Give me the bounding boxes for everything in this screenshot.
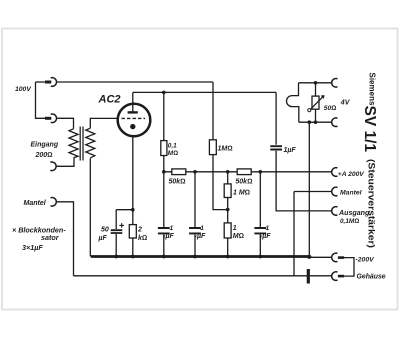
node bus c1 (114, 255, 118, 259)
svg-text:0,1MΩ: 0,1MΩ (340, 218, 359, 225)
svg-text:Gehäuse: Gehäuse (357, 273, 386, 280)
wire 100V corner to plug (36, 81, 45, 83)
svg-text:50kΩ: 50kΩ (169, 178, 186, 185)
jack Ausgang socket arc (332, 207, 338, 216)
capacitor C2 1uF plates (158, 228, 170, 233)
wire cathode down (132, 136, 134, 225)
jack 100V socket arc (51, 78, 57, 87)
jack Mantel left socket arc (51, 198, 57, 207)
svg-text:1µF: 1µF (284, 147, 297, 154)
svg-text:MΩ: MΩ (233, 233, 244, 240)
svg-text:×µF: ×µF (194, 233, 206, 240)
chassis bar (307, 269, 310, 284)
wire grid from transformer to tube (90, 118, 118, 128)
node rail c2 (193, 170, 197, 174)
resistor R1 0,1 Mohm box (161, 141, 167, 156)
jack +A 200V socket arc (332, 168, 338, 177)
svg-text:3×1µF: 3×1µF (22, 243, 43, 252)
svg-text:50Ω: 50Ω (324, 105, 336, 112)
svg-text:(Steuerverstärker): (Steuerverstärker) (366, 159, 376, 248)
svg-text:Mantel: Mantel (24, 200, 47, 207)
wire 1Mohm3 leads (227, 172, 229, 184)
svg-text:SV 1/1: SV 1/1 (361, 106, 378, 153)
jack Gehaeuse socket arc (332, 272, 338, 281)
node heater top (314, 81, 318, 85)
svg-text:MΩ: MΩ (168, 150, 178, 157)
svg-text:Siemens: Siemens (368, 73, 377, 106)
node bus r6 (226, 255, 230, 259)
svg-text:4V: 4V (340, 100, 351, 107)
wire C5 to Ausgang jack (276, 151, 332, 211)
svg-text:µF: µF (98, 235, 108, 242)
wire rheostat bottom lead (315, 109, 317, 122)
wire cap1 leads (163, 172, 165, 227)
svg-text:×µF: ×µF (260, 233, 272, 240)
resistor R5 1 Mohm box (224, 184, 231, 198)
wire cathode to 50uF cap (116, 209, 133, 211)
wire Eingang top to transformer (56, 118, 73, 129)
wire Mantel right vertical (293, 192, 295, 276)
wire Eingang bottom to transformer (56, 158, 74, 167)
node heater bottom pot (314, 120, 318, 124)
wire rheostat leads (315, 83, 317, 96)
jack Mantel right socket arc (332, 187, 338, 196)
wire cap2 bottom lead (194, 234, 196, 256)
node cathode junction (131, 208, 135, 212)
wire 1Mohm4 bottom lead (227, 238, 229, 257)
wire cap1 bottom lead (163, 234, 165, 256)
wire -200V jack (310, 256, 332, 258)
node rail left (162, 170, 166, 174)
wire heater down to bus (308, 122, 310, 256)
wire 100V-Eingang link vertical (36, 82, 46, 118)
capacitor C1 plus sign (119, 223, 124, 228)
resistor R2 1 Mohm box (209, 140, 216, 155)
capacitor C3 1uF plates (189, 228, 201, 233)
svg-text:200Ω: 200Ω (35, 152, 53, 159)
wire anode horizontal (133, 91, 276, 93)
wire R1 bottom lead (163, 156, 165, 172)
node anode/R1 (162, 91, 166, 95)
jack Eingang bottom socket arc (50, 162, 56, 171)
node 1M junction (226, 208, 230, 212)
rheostat R8 50 ohm box (312, 96, 319, 109)
node bus right end (307, 255, 311, 259)
svg-text:+A 200V: +A 200V (338, 171, 365, 178)
svg-text:×µF: ×µF (163, 233, 175, 240)
heater filament bracket (287, 83, 299, 122)
svg-text:Eingang: Eingang (31, 142, 59, 149)
rheostat wiper circle (308, 109, 311, 112)
jack 100V plug (45, 81, 52, 84)
wire R5 to R6 link (227, 198, 229, 223)
jack -200V plug (338, 256, 344, 259)
ground bus thick (91, 255, 310, 258)
wire bottom thin shield line (74, 275, 332, 277)
wire -200V to Gehaeuse link (344, 258, 354, 277)
tube U1 AC2 envelope (118, 104, 151, 137)
capacitor C4 1uF plates (254, 228, 266, 233)
rheostat arrow (310, 96, 324, 110)
node heater bottom down (308, 120, 312, 124)
svg-text:sator: sator (41, 233, 60, 242)
svg-text:50kΩ: 50kΩ (235, 178, 252, 185)
jack 4V bottom socket arc (332, 118, 338, 127)
svg-text:1: 1 (170, 225, 174, 232)
wire heater bottom rail (299, 121, 332, 123)
wire 50uF top lead (115, 210, 117, 229)
node rail c4 (259, 170, 263, 174)
wire 1Mohm2 vertical from 100V line (212, 82, 214, 140)
wire anode lead up (132, 92, 134, 111)
node rail r5 (226, 170, 230, 174)
svg-text:1: 1 (266, 225, 270, 232)
node bus cap1 (162, 255, 166, 259)
svg-text:1: 1 (233, 225, 237, 232)
svg-text:kΩ: kΩ (138, 235, 147, 242)
node bus cathode (131, 255, 135, 259)
transformer T1 secondary winding (86, 128, 95, 158)
wire heater top rail (299, 82, 332, 84)
svg-text:50: 50 (101, 227, 109, 234)
svg-text:0,1: 0,1 (168, 142, 177, 149)
resistor R6 1 Mohm box (224, 223, 231, 238)
jack 4V top socket arc (332, 79, 338, 88)
capacitor C5 1uF coupling plates (270, 146, 282, 149)
svg-text:1: 1 (200, 225, 204, 232)
svg-text:-200V: -200V (356, 256, 376, 263)
svg-text:2: 2 (137, 227, 142, 234)
tube cathode dot (130, 124, 135, 129)
wire cap3 leads (259, 172, 261, 227)
tube anode plate bar (128, 111, 138, 113)
wire 100V top horizontal (57, 81, 214, 83)
svg-text:100V: 100V (15, 86, 32, 93)
wire cap2 leads (194, 172, 196, 227)
resistor R3 50 kohm box (172, 169, 186, 175)
wire Mantel right (294, 191, 332, 193)
svg-text:1MΩ: 1MΩ (218, 145, 233, 152)
jack Gehaeuse plug (338, 275, 344, 278)
svg-text:Mantel: Mantel (340, 190, 362, 197)
wire rail B+ (164, 171, 332, 173)
transformer T1 primary winding (69, 129, 78, 158)
node bus cap2 (193, 255, 197, 259)
wire cathode resistor to bus (132, 238, 134, 257)
jack Eingang top socket arc (51, 114, 57, 123)
wire cap3 bottom lead (259, 234, 261, 256)
svg-text:Ausgang: Ausgang (338, 209, 370, 217)
capacitor C1 50uF plates (111, 230, 123, 233)
transformer T1 core (80, 127, 83, 161)
tube grid dashed (122, 117, 146, 119)
wire Mantel left down to bottom line (56, 202, 74, 276)
wire R2 bottom corner link (213, 155, 228, 210)
wire coupling cap 1uF leads (275, 92, 277, 144)
jack Eingang top plug (45, 117, 51, 120)
resistor R7 2 kohm box (129, 225, 136, 238)
svg-text:AC2: AC2 (98, 94, 121, 106)
wire 50uF bottom lead (115, 234, 117, 257)
node bus cap3 (258, 255, 262, 259)
wire 0,1M ohm branch (163, 92, 165, 140)
jack -200V socket arc (332, 253, 338, 262)
svg-text:1 MΩ: 1 MΩ (233, 189, 250, 196)
resistor R4 50 kohm box (237, 169, 251, 175)
wire transformer secondary bottom to bus (89, 158, 91, 256)
